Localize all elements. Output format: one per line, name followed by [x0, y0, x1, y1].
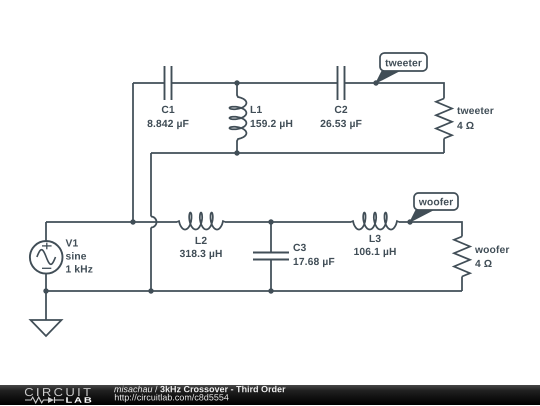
node junction L1 top	[234, 80, 239, 85]
node junction tweeter flag	[373, 80, 378, 85]
label 159.2 µH	[251, 120, 293, 129]
label sine	[66, 252, 86, 260]
logo resistor-diode glyph	[25, 397, 64, 403]
label 4 Ω	[475, 260, 492, 267]
wire top rail between C1 and C2	[172, 82, 338, 84]
label 26.53 µF	[321, 120, 362, 129]
label 8.842 µF	[148, 120, 189, 129]
label tweeter	[385, 60, 422, 67]
label C2	[335, 106, 347, 113]
capacitor C1	[148, 66, 189, 129]
voltage source V1	[30, 222, 93, 291]
wire bottom rail	[46, 290, 462, 292]
wire woofer resistor bottom lead	[461, 277, 463, 292]
label 17.68 µF	[294, 258, 335, 267]
capacitor C2	[321, 66, 362, 129]
label V1	[66, 239, 78, 246]
footer bar	[0, 385, 540, 406]
inductor L1	[230, 83, 293, 153]
footer url text	[115, 393, 229, 401]
wire middle rail between L2 and L3	[225, 221, 351, 223]
node junction left drop to middle rail	[130, 219, 135, 224]
capacitor C3	[253, 222, 334, 291]
inductor L3	[351, 213, 399, 258]
node junction V1 bottom	[43, 288, 48, 293]
label C3	[293, 244, 306, 251]
node junction C3 bottom	[268, 288, 273, 293]
wire middle rail from V1 corner to L2	[46, 221, 177, 223]
resistor tweeter 4 ohm	[436, 99, 494, 139]
wire tweeter resistor bottom lead	[443, 139, 445, 154]
label 1 kHz	[66, 265, 92, 273]
label woofer	[419, 198, 453, 206]
wire tweeter bottom rail	[151, 152, 444, 154]
wire left drop from top loop	[132, 83, 134, 222]
wire top rail right of C2 plus corner down	[345, 83, 445, 99]
wire vertical with hop over middle rail	[151, 153, 157, 291]
wire top rail left of C1	[133, 82, 165, 84]
node junction C3 top	[268, 219, 273, 224]
ground	[31, 320, 62, 336]
node junction hop wire to bottom rail	[148, 288, 153, 293]
label 4 Ω	[457, 122, 474, 129]
label L2	[196, 237, 207, 244]
label woofer	[475, 246, 509, 254]
flag woofer	[410, 193, 458, 222]
label L3	[370, 235, 381, 242]
label 318.3 µH	[180, 250, 222, 259]
inductor L2	[177, 213, 225, 260]
flag tweeter	[376, 53, 427, 83]
CircuitLab logo wordmark CIRCUIT	[25, 388, 91, 403]
resistor woofer 4 ohm	[454, 237, 509, 277]
wire middle rail right of L3 plus corner down	[399, 222, 462, 237]
footer title text	[114, 385, 285, 392]
label L1	[251, 106, 262, 113]
label 106.1 µH	[354, 248, 396, 257]
label C1	[162, 106, 175, 113]
wire ground stem	[45, 291, 47, 320]
node junction L1 bottom	[234, 150, 239, 155]
label tweeter	[457, 107, 494, 114]
logo wordmark LAB	[66, 397, 91, 402]
node junction woofer flag	[407, 219, 412, 224]
